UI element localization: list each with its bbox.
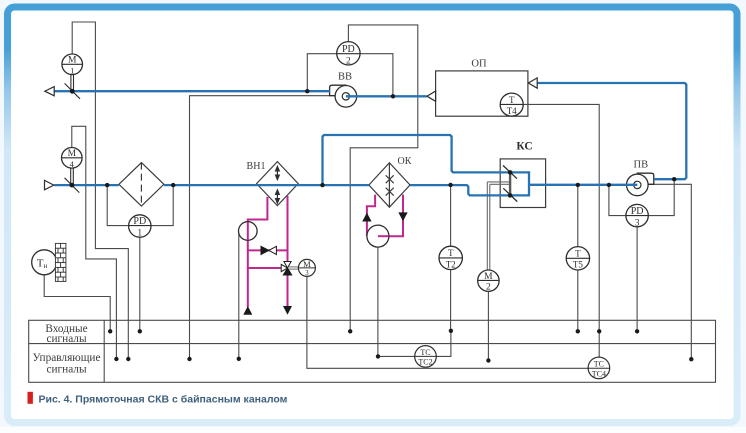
svg-text:PD: PD xyxy=(133,216,146,227)
pipe through pump BH1 xyxy=(247,222,249,240)
pipe BH1 right leg xyxy=(287,196,289,262)
damper M4 stem and blade xyxy=(65,168,80,193)
signal rows table xyxy=(29,320,716,382)
wire PD1 signal to input row xyxy=(139,237,141,331)
sensor PD3 xyxy=(626,204,648,228)
wire T2 sensor line xyxy=(450,185,452,331)
linkage M2 double line xyxy=(487,182,510,271)
wire OK pump control xyxy=(377,247,379,356)
magenta chilled pipes OK xyxy=(367,195,403,237)
svg-text:ОП: ОП xyxy=(471,59,487,70)
sensor T4 xyxy=(500,93,523,116)
svg-text:Т: Т xyxy=(509,95,515,105)
wire PD3 signal to input row xyxy=(636,227,638,332)
svg-text:ТС: ТС xyxy=(594,359,604,368)
motor M2 xyxy=(478,270,499,293)
heater BH1 diamond xyxy=(257,162,299,206)
filter diamond xyxy=(119,163,164,206)
svg-text:Т4: Т4 xyxy=(507,106,517,116)
box KC (valve block) xyxy=(500,159,545,208)
svg-text:ПВ: ПВ xyxy=(634,160,649,171)
wire M2 control to row xyxy=(487,292,489,361)
pump BH1 xyxy=(239,222,258,241)
flow arrow supply up (BH1) xyxy=(243,306,252,315)
wire M1 control loop xyxy=(72,22,128,359)
sensor PD1 xyxy=(129,215,151,239)
sensor PD2 xyxy=(337,42,360,67)
pipe return below valve xyxy=(287,275,289,306)
motor M3 xyxy=(298,259,315,277)
wire M3 to TC4 xyxy=(307,276,589,368)
wire main supply duct xyxy=(54,184,119,186)
flow arrow down (OK right) xyxy=(398,212,407,221)
svg-text:2: 2 xyxy=(346,57,351,67)
svg-text:ОК: ОК xyxy=(398,156,412,167)
wire PD3 tap loop xyxy=(609,179,674,215)
pipe check valve branch xyxy=(248,249,288,251)
wire M4 control loop xyxy=(72,126,117,359)
signal wires xyxy=(44,22,691,368)
svg-text:М: М xyxy=(68,149,77,159)
wire Tn sensor to input row xyxy=(44,275,110,332)
svg-text:М: М xyxy=(68,56,77,66)
wire T4 sensor line to TC4 xyxy=(500,104,599,357)
sensor Tn outdoor xyxy=(32,250,57,275)
wire duct KC to fan PV xyxy=(529,184,637,186)
damper M1 stem and blade xyxy=(65,74,80,98)
svg-text:ТС2: ТС2 xyxy=(418,358,432,367)
pipe OK right leg to pump xyxy=(378,195,403,237)
blue air ducts xyxy=(54,83,686,197)
svg-text:ТС: ТС xyxy=(420,348,430,357)
svg-text:Т5: Т5 xyxy=(573,260,583,270)
svg-text:ВВ: ВВ xyxy=(338,72,352,83)
svg-text:Управляющие: Управляющие xyxy=(33,352,101,364)
flow arrow return down (BH1) xyxy=(283,306,292,315)
controller TC4 xyxy=(588,357,610,379)
wire return duct OP to PV xyxy=(537,83,686,179)
svg-text:ТС4: ТС4 xyxy=(592,369,606,378)
pipe OK left leg xyxy=(367,195,375,236)
controller TC2 xyxy=(415,346,437,368)
pipe BH1 left leg to pump xyxy=(248,197,268,307)
BH1 internal arrows xyxy=(275,165,281,205)
svg-text:Рис. 4. Прямоточная СКВ с байп: Рис. 4. Прямоточная СКВ с байпасным кана… xyxy=(39,394,288,406)
svg-text:Т: Т xyxy=(575,249,581,259)
box OP (room) xyxy=(436,71,528,116)
caption red marker xyxy=(28,392,33,404)
wire PD1 tap loop xyxy=(107,185,173,226)
wire TC2 links pump and T2 xyxy=(378,331,451,357)
wire PV fan control xyxy=(648,184,691,359)
wire exhaust duct top xyxy=(54,90,330,92)
air exhaust triangle xyxy=(45,87,54,96)
wire PD2 pressure taps xyxy=(307,54,393,97)
wire PD2 signal to input row xyxy=(348,25,417,331)
svg-text:Т2: Т2 xyxy=(446,259,456,269)
svg-text:сигналы: сигналы xyxy=(46,333,86,345)
svg-text:1: 1 xyxy=(70,65,74,75)
linkage valve to M3 xyxy=(289,267,299,269)
3-way valve xyxy=(281,262,292,276)
wire T5 sensor line xyxy=(577,185,579,331)
sensor T2 xyxy=(439,246,462,269)
svg-text:КС: КС xyxy=(516,141,532,153)
triangle into room OP xyxy=(427,91,436,101)
node input row xyxy=(108,329,112,333)
magenta heating pipes BH1 xyxy=(248,196,288,307)
sensor T5 xyxy=(566,247,589,270)
svg-text:2: 2 xyxy=(486,283,491,293)
wire duct fan BB to OP xyxy=(346,95,427,97)
triangle out of room OP xyxy=(528,78,537,88)
pipe to 3-way valve xyxy=(248,267,281,269)
svg-text:М: М xyxy=(303,259,311,269)
svg-text:3: 3 xyxy=(305,269,309,277)
dampers in KC xyxy=(509,172,511,195)
check valve xyxy=(261,246,276,254)
pump OK xyxy=(367,225,389,247)
wire KC merge xyxy=(528,171,530,196)
air intake triangle (supply) xyxy=(45,180,54,189)
wire main duct OK to KC lower pass xyxy=(410,185,529,195)
wall brick bar xyxy=(55,243,66,281)
svg-text:PD: PD xyxy=(631,206,644,217)
wire bypass duct xyxy=(323,135,530,185)
flow arrow up (OK left) xyxy=(362,213,371,222)
wire TC4 chord xyxy=(589,367,610,369)
svg-text:4: 4 xyxy=(70,159,75,169)
row labels xyxy=(33,323,101,376)
wire BH1 pump control xyxy=(238,234,240,359)
wire BB fan control xyxy=(190,96,330,359)
node control row xyxy=(114,357,118,361)
motor M4 xyxy=(62,148,83,169)
svg-text:М: М xyxy=(484,272,493,282)
svg-text:1: 1 xyxy=(137,229,142,239)
fan PV (supply fan) body xyxy=(627,173,654,196)
svg-text:PD: PD xyxy=(342,44,355,55)
motor M1 xyxy=(62,54,83,75)
pipe into pump OK xyxy=(378,235,389,237)
svg-text:Т: Т xyxy=(448,248,454,258)
svg-text:ВН1: ВН1 xyxy=(247,161,266,172)
fan BB (exhaust fan) body xyxy=(330,85,357,107)
svg-text:3: 3 xyxy=(635,218,640,228)
cooler OK diamond xyxy=(369,163,410,208)
svg-text:сигналы: сигналы xyxy=(46,364,86,376)
